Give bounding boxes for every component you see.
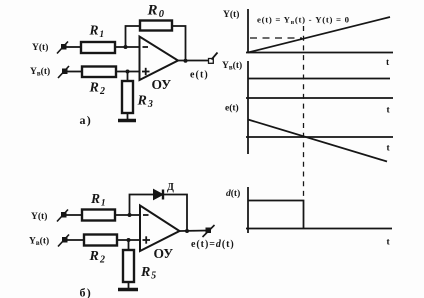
svg-text:e(t): e(t) bbox=[190, 70, 209, 81]
graph1 time axis bbox=[246, 52, 393, 54]
resistor R5 bbox=[123, 250, 134, 282]
wire input1 to R1 bbox=[65, 46, 81, 48]
wire R2 to non-inverting b bbox=[117, 239, 140, 241]
graph3 vertical axis bbox=[247, 98, 249, 154]
svg-text:Yв(t): Yв(t) bbox=[29, 236, 49, 248]
curve e(t) declining bbox=[248, 120, 387, 162]
ground circuit b bbox=[118, 288, 138, 292]
graph2 vertical axis bbox=[247, 61, 249, 98]
graph4 vertical axis bbox=[247, 187, 249, 233]
dashed level line graph1 bbox=[250, 37, 302, 39]
graph2 time axis bbox=[246, 97, 393, 99]
op-amp U1 (OY) circuit a bbox=[140, 37, 179, 81]
curve pulse d(t) bbox=[248, 201, 304, 229]
svg-text:Y(t): Y(t) bbox=[223, 9, 239, 20]
op-amp U2 (OY) circuit b bbox=[140, 206, 180, 252]
input terminal 1 circuit b bbox=[57, 210, 68, 222]
svg-text:Д: Д bbox=[167, 182, 174, 193]
minus sign op-amp b bbox=[143, 214, 149, 216]
wire R5 to ground bbox=[128, 282, 130, 288]
graph1 vertical axis bbox=[247, 9, 249, 53]
junction node inverting input a bbox=[124, 45, 128, 49]
svg-text:e(t)=d(t): e(t)=d(t) bbox=[191, 239, 235, 250]
wire input1 to R1 b bbox=[65, 214, 82, 216]
wire input2 to R2 b bbox=[66, 239, 84, 241]
svg-text:б): б) bbox=[80, 286, 92, 298]
junction node non-inverting a bbox=[126, 70, 130, 74]
plus sign op-amp b bbox=[143, 236, 151, 243]
input terminal 1 circuit a bbox=[57, 42, 68, 54]
junction node output a bbox=[184, 59, 188, 63]
output terminal circuit a bbox=[209, 53, 218, 64]
wire R1 to inverting input b bbox=[115, 214, 140, 216]
dashed vertical time marker bbox=[303, 26, 305, 200]
wire feedback b right bbox=[164, 195, 187, 232]
wire feedback right down bbox=[172, 26, 186, 61]
graph3 time axis bbox=[246, 136, 393, 138]
svg-text:ОУ: ОУ bbox=[154, 246, 174, 261]
resistor R1 (circuit b) bbox=[82, 210, 115, 221]
wire input2 to R2 bbox=[66, 71, 82, 73]
output terminal circuit b bbox=[203, 225, 215, 237]
resistor R1 (circuit a) bbox=[81, 42, 115, 53]
svg-text:Yв(t): Yв(t) bbox=[222, 60, 242, 72]
junction node non-inverting b bbox=[127, 238, 131, 242]
curve ramp Y(t) bbox=[248, 17, 390, 53]
curve constant Yv(t) bbox=[248, 78, 390, 80]
svg-text:d(t): d(t) bbox=[226, 188, 240, 199]
resistor R2 (circuit b) bbox=[84, 235, 117, 246]
svg-text:e(t): e(t) bbox=[225, 103, 239, 114]
wire R1 to inverting input bbox=[115, 46, 140, 48]
resistor R3 bbox=[122, 81, 133, 113]
resistor R0 feedback bbox=[140, 21, 172, 31]
wire feedback b left bbox=[130, 195, 154, 216]
resistor R2 (circuit a) bbox=[82, 67, 116, 78]
wire op-amp a output bbox=[178, 60, 209, 62]
wire junction to R5 bbox=[128, 240, 130, 250]
input terminal 2 circuit a bbox=[58, 66, 69, 78]
junction node output b bbox=[185, 229, 189, 233]
minus sign op-amp a bbox=[143, 46, 149, 48]
svg-text:ОУ: ОУ bbox=[152, 77, 172, 92]
svg-text:а): а) bbox=[80, 113, 92, 127]
svg-text:e(t) = Yв(t) - Y(t) = 0: e(t) = Yв(t) - Y(t) = 0 bbox=[257, 15, 350, 26]
ground circuit a bbox=[118, 119, 136, 123]
input terminal 2 circuit b bbox=[58, 235, 69, 247]
wire junction to R3 bbox=[127, 72, 129, 82]
wire op-amp b output bbox=[180, 230, 209, 233]
graph4 time axis bbox=[246, 228, 392, 230]
svg-text:Y(t): Y(t) bbox=[32, 42, 48, 53]
wire R3 to ground bbox=[127, 113, 129, 119]
svg-text:Yв(t): Yв(t) bbox=[30, 66, 50, 78]
svg-text:Y(t): Y(t) bbox=[31, 211, 47, 222]
plus sign op-amp a bbox=[142, 68, 150, 75]
diode D feedback bbox=[154, 190, 164, 200]
wire R2 to non-inverting input bbox=[116, 71, 140, 73]
junction node inverting b bbox=[128, 213, 132, 217]
wire feedback left up bbox=[126, 26, 141, 47]
